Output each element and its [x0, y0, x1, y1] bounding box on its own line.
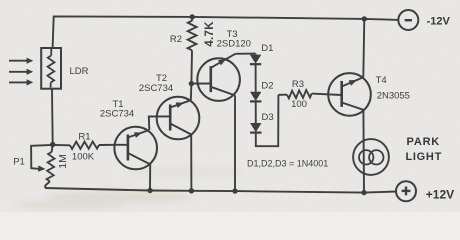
wire D1 to D2 — [255, 64, 257, 92]
junction top rail T4 — [362, 16, 367, 21]
wire T2 emitter to bottom rail — [190, 135, 192, 191]
wire D3 to R3 — [256, 95, 279, 146]
scan ghost smudge 1 — [45, 191, 195, 203]
light arrow 3 — [9, 79, 33, 85]
diode D2 — [250, 92, 261, 102]
junction lamp rail — [361, 190, 366, 195]
wire LDR to node A — [51, 89, 54, 145]
transistor T2 — [157, 97, 200, 140]
wire T1 collector to T2 base — [149, 116, 169, 130]
wire top rail right segment — [364, 19, 398, 20]
wire bottom rail — [45, 188, 396, 193]
junction top rail R2 — [190, 14, 195, 19]
transistor T3 — [191, 54, 240, 101]
lamp park light — [353, 139, 389, 175]
transistor T4 — [328, 73, 371, 116]
wire T4 emitter to top rail — [363, 19, 364, 77]
scan ghost smudge 2 — [15, 200, 125, 210]
LDR light dependent resistor — [41, 48, 61, 89]
wire top rail left segment — [53, 16, 193, 48]
resistor R3 — [278, 90, 341, 98]
junction T1 emitter rail — [147, 188, 152, 193]
wire T1 emitter to bottom rail — [149, 164, 151, 190]
junction T3 rail — [232, 188, 237, 193]
wire top rail middle segment — [192, 17, 364, 19]
terminal +12V — [396, 181, 416, 201]
wire T4 collector through lamp to bottom rail — [362, 110, 365, 193]
light arrow 2 — [9, 69, 33, 75]
diode D1 — [250, 54, 261, 65]
resistor R1 — [53, 142, 115, 150]
node A junction — [50, 142, 55, 147]
resistor R2 — [188, 17, 197, 84]
transistor T1 — [114, 127, 157, 170]
diode D3 — [250, 123, 261, 133]
wire T3 collector to bottom rail — [234, 95, 236, 191]
light arrow 1 — [9, 58, 33, 64]
terminal -12V — [398, 10, 418, 30]
wire D2 to D3 — [255, 101, 257, 123]
wire T3 emitter to D1 — [235, 53, 255, 55]
wire T2 collector to node B — [190, 84, 193, 101]
junction T2 emitter rail — [189, 188, 194, 193]
scan ghost smudge 3 — [125, 167, 245, 177]
potentiometer P1 — [31, 145, 54, 189]
node B junction — [189, 81, 194, 86]
